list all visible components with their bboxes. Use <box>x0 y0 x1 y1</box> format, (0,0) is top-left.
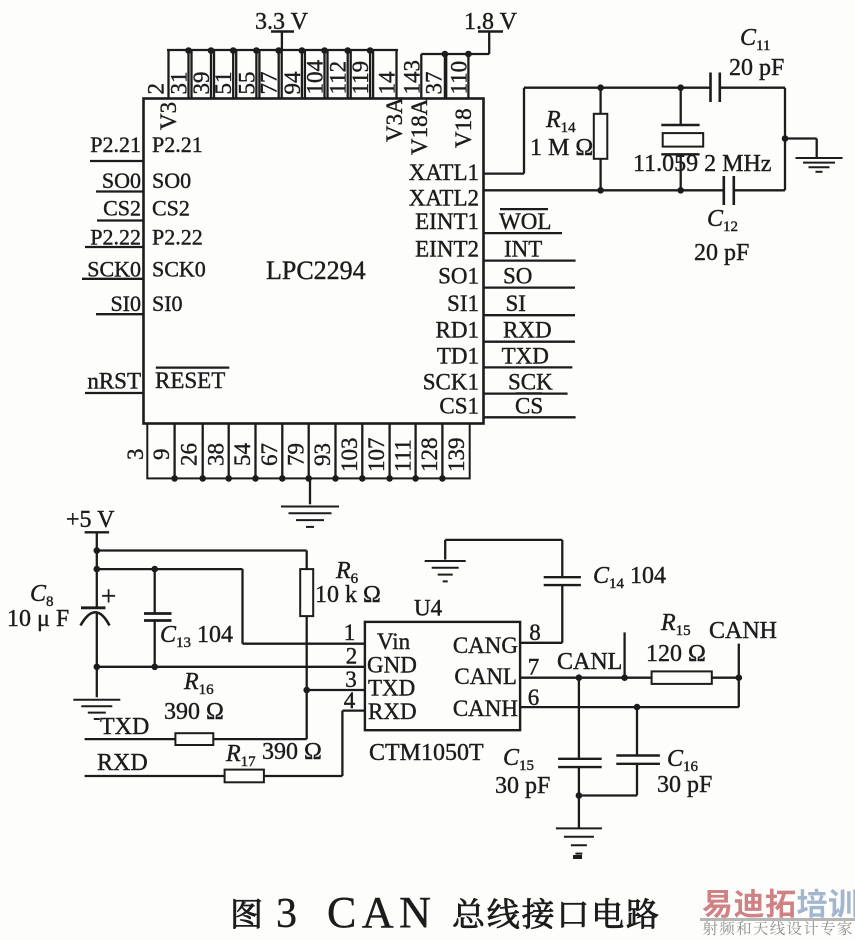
svg-text:104: 104 <box>303 60 328 95</box>
svg-text:112: 112 <box>326 61 351 95</box>
svg-text:107: 107 <box>364 438 389 473</box>
svg-text:51: 51 <box>211 72 236 95</box>
svg-text:390 Ω: 390 Ω <box>262 739 322 765</box>
svg-text:INT: INT <box>504 237 542 262</box>
svg-text:RESET: RESET <box>155 368 225 393</box>
svg-text:111: 111 <box>391 439 416 472</box>
svg-text:LPC2294: LPC2294 <box>266 256 366 285</box>
svg-text:RXD: RXD <box>97 750 148 776</box>
svg-text:55: 55 <box>234 72 259 95</box>
svg-text:nRST: nRST <box>87 369 141 394</box>
svg-text:139: 139 <box>444 438 469 473</box>
svg-text:P2.22: P2.22 <box>90 225 141 250</box>
svg-text:RXD: RXD <box>368 699 417 724</box>
svg-text:SI1: SI1 <box>447 291 479 316</box>
svg-text:110: 110 <box>447 61 472 95</box>
svg-text:1: 1 <box>344 620 356 645</box>
svg-text:SCK: SCK <box>508 370 553 395</box>
svg-text:EINT2: EINT2 <box>415 237 479 262</box>
svg-text:SCK1: SCK1 <box>423 370 479 395</box>
svg-text:7: 7 <box>528 655 540 680</box>
svg-text:CANH: CANH <box>709 618 777 644</box>
svg-text:CS: CS <box>515 393 543 418</box>
svg-text:CANL: CANL <box>454 664 517 689</box>
svg-text:C13 104: C13 104 <box>160 622 233 651</box>
svg-text:V3: V3 <box>156 102 181 130</box>
svg-text:3: 3 <box>276 891 297 937</box>
svg-text:XATL1: XATL1 <box>409 160 479 185</box>
svg-text:31: 31 <box>167 72 192 95</box>
svg-text:2: 2 <box>346 644 358 669</box>
svg-text:38: 38 <box>204 443 229 466</box>
svg-text:CS1: CS1 <box>439 393 479 418</box>
svg-text:3: 3 <box>123 449 148 461</box>
svg-text:94: 94 <box>280 71 305 95</box>
svg-text:Vin: Vin <box>377 629 411 654</box>
svg-text:79: 79 <box>284 443 309 466</box>
svg-text:10 k Ω: 10 k Ω <box>315 582 381 608</box>
svg-text:V18: V18 <box>451 108 476 148</box>
svg-text:RXD: RXD <box>503 318 552 343</box>
svg-text:+5 V: +5 V <box>66 507 115 533</box>
svg-text:67: 67 <box>257 443 282 466</box>
svg-text:10 μ F: 10 μ F <box>7 606 69 632</box>
svg-text:SO1: SO1 <box>438 264 479 289</box>
svg-text:C14 104: C14 104 <box>593 563 666 592</box>
svg-text:SO0: SO0 <box>152 168 191 193</box>
svg-text:77: 77 <box>257 72 282 95</box>
svg-text:CS2: CS2 <box>152 196 190 221</box>
svg-text:U4: U4 <box>414 596 443 621</box>
svg-text:SO0: SO0 <box>102 168 141 193</box>
svg-text:3.3 V: 3.3 V <box>255 9 309 35</box>
svg-text:CANL: CANL <box>557 649 622 675</box>
svg-text:SO: SO <box>503 264 532 289</box>
svg-text:93: 93 <box>310 443 335 466</box>
svg-text:30 pF: 30 pF <box>495 773 550 799</box>
svg-text:+: + <box>101 581 116 611</box>
svg-text:CAN: CAN <box>327 888 436 937</box>
svg-text:SCK0: SCK0 <box>152 256 206 281</box>
svg-text:XATL2: XATL2 <box>409 186 479 211</box>
svg-text:37: 37 <box>422 72 447 95</box>
svg-text:SI: SI <box>506 291 526 316</box>
svg-text:SI0: SI0 <box>152 291 183 316</box>
svg-text:TXD: TXD <box>368 676 415 701</box>
svg-text:20 pF: 20 pF <box>694 240 749 266</box>
svg-text:9: 9 <box>149 449 174 461</box>
svg-text:CANG: CANG <box>453 633 518 658</box>
svg-text:14: 14 <box>375 71 400 95</box>
svg-text:8: 8 <box>529 620 541 645</box>
svg-text:TXD: TXD <box>100 714 149 740</box>
svg-text:SI0: SI0 <box>110 291 141 316</box>
svg-text:120 Ω: 120 Ω <box>646 641 706 667</box>
svg-text:2: 2 <box>144 83 169 95</box>
svg-text:390 Ω: 390 Ω <box>164 699 224 725</box>
svg-text:RD1: RD1 <box>436 318 479 343</box>
svg-text:P2.21: P2.21 <box>152 132 203 157</box>
svg-text:TD1: TD1 <box>437 343 479 368</box>
svg-text:30 pF: 30 pF <box>657 772 712 798</box>
svg-text:V3A: V3A <box>382 97 407 142</box>
svg-text:103: 103 <box>337 438 362 473</box>
svg-text:P2.21: P2.21 <box>90 132 141 157</box>
svg-text:V18A: V18A <box>407 98 432 155</box>
svg-text:CANH: CANH <box>453 696 518 721</box>
svg-text:P2.22: P2.22 <box>152 225 203 250</box>
svg-text:SCK0: SCK0 <box>87 256 141 281</box>
svg-text:20 pF: 20 pF <box>729 55 784 81</box>
svg-text:GND: GND <box>367 652 417 677</box>
svg-text:WOL: WOL <box>499 209 551 234</box>
svg-text:128: 128 <box>417 438 442 473</box>
svg-text:1 M Ω: 1 M Ω <box>530 135 593 161</box>
svg-text:54: 54 <box>230 443 255 467</box>
svg-text:26: 26 <box>177 443 202 466</box>
svg-text:EINT1: EINT1 <box>415 209 479 234</box>
svg-text:1.8 V: 1.8 V <box>464 9 518 35</box>
svg-text:4: 4 <box>344 688 356 713</box>
svg-text:11.059 2 MHz: 11.059 2 MHz <box>633 151 771 177</box>
svg-text:119: 119 <box>348 61 373 95</box>
svg-text:CS2: CS2 <box>103 196 141 221</box>
svg-text:CTM1050T: CTM1050T <box>369 740 484 766</box>
svg-text:TXD: TXD <box>502 343 549 368</box>
